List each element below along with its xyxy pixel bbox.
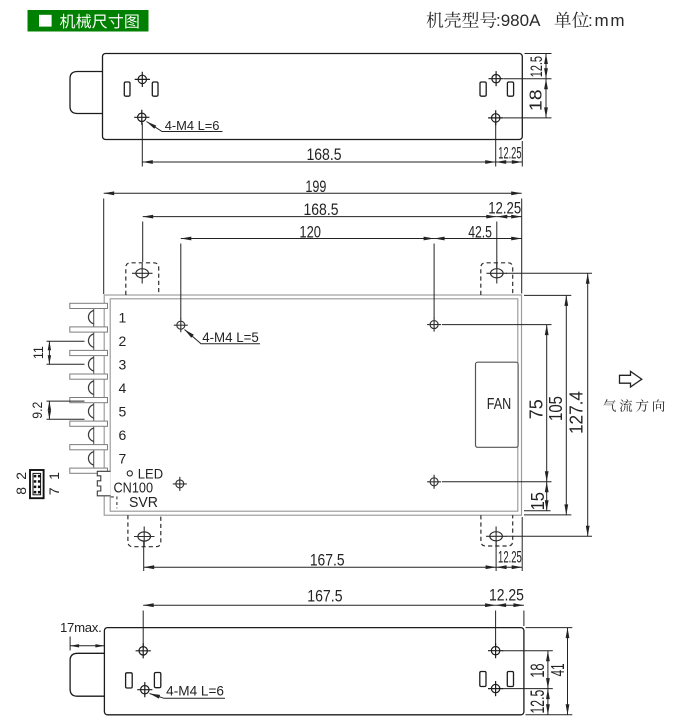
svg-text:12.25: 12.25 <box>488 200 521 218</box>
header green title box <box>28 10 149 32</box>
svg-text:LED: LED <box>138 466 163 482</box>
air flow arrow <box>620 371 642 387</box>
svg-text:168.5: 168.5 <box>306 146 341 164</box>
svg-text:12.5: 12.5 <box>528 56 546 77</box>
terminal pitch dim 11 <box>47 341 85 364</box>
svg-text:120: 120 <box>299 223 321 241</box>
ear hole bottom-left <box>138 532 151 541</box>
svg-text:7: 7 <box>119 451 127 467</box>
terminal block vertical line <box>93 303 95 473</box>
bottom view chassis body <box>104 628 524 715</box>
ear hole bottom-right <box>490 532 503 541</box>
svg-text:8: 8 <box>13 487 29 495</box>
mounting ear top-left (dashed) <box>126 263 159 295</box>
dim 42.5 <box>434 238 522 240</box>
svg-text:6: 6 <box>119 427 127 443</box>
top view mounting holes <box>138 75 146 83</box>
LED indicator <box>127 471 132 476</box>
svg-text:2: 2 <box>13 472 29 480</box>
header model text <box>427 12 497 28</box>
svg-text:15: 15 <box>528 492 548 510</box>
bottom view slots <box>126 673 133 688</box>
bottom view label 4-M4 L=6 <box>150 694 226 699</box>
svg-text:127.4: 127.4 <box>567 391 587 434</box>
svg-text:167.5: 167.5 <box>310 551 345 569</box>
bottom view dim 167.5 <box>143 605 495 648</box>
svg-text:105: 105 <box>546 396 566 421</box>
svg-text:167.5: 167.5 <box>307 588 342 606</box>
svg-text:12.25: 12.25 <box>498 144 521 162</box>
label 4-M4 L=5 <box>185 330 261 344</box>
dim 199 <box>104 193 522 294</box>
dim 75 <box>442 325 552 482</box>
terminal block bars <box>70 303 108 473</box>
svg-text:3: 3 <box>119 356 127 372</box>
svg-text:17max.: 17max. <box>60 620 101 635</box>
dim 15 <box>524 482 551 511</box>
svg-text:5: 5 <box>119 404 127 420</box>
dim 105 <box>524 295 571 515</box>
dim 127.4 <box>506 273 592 536</box>
SVR hidden outline (dashed) <box>111 497 117 509</box>
dim 167.5 (middle bottom) <box>144 541 496 571</box>
svg-text:11: 11 <box>31 346 46 359</box>
svg-text:SVR: SVR <box>129 495 158 511</box>
svg-text:42.5: 42.5 <box>468 223 492 241</box>
bottom view mounting holes <box>139 647 147 655</box>
svg-text:7: 7 <box>46 487 62 495</box>
middle view chassis outer edge <box>104 295 521 515</box>
svg-text:18: 18 <box>526 89 546 111</box>
terminal numbers 1-7 <box>119 309 127 466</box>
FAN cutout <box>476 362 519 447</box>
dim 168.5 (middle) <box>143 217 497 268</box>
svg-text:18: 18 <box>528 663 549 677</box>
svg-text:12.25: 12.25 <box>498 548 522 566</box>
mounting ear top-right (dashed) <box>481 263 513 295</box>
svg-text:4-M4 L=5: 4-M4 L=5 <box>202 330 259 346</box>
ear hole top-left <box>136 269 149 278</box>
CN100 connector protrusion <box>97 471 110 496</box>
middle view chassis inner edge <box>110 299 518 511</box>
svg-text:FAN: FAN <box>487 396 512 413</box>
bottom view dim 12.25 <box>496 605 524 626</box>
svg-text:4-M4 L=6: 4-M4 L=6 <box>166 683 224 698</box>
dim 120 <box>181 239 434 320</box>
dim 12.25 (middle bottom right) <box>496 517 522 571</box>
svg-text:1: 1 <box>119 309 127 325</box>
ear hole top-right <box>491 269 504 278</box>
top view dimensions right (12.5 / 18) <box>504 54 552 118</box>
mounting ear bottom-right (dashed) <box>481 515 513 546</box>
top view slots <box>124 82 130 96</box>
svg-text:41: 41 <box>548 663 568 676</box>
svg-text:4-M4 L=6: 4-M4 L=6 <box>165 118 220 133</box>
inner mounting holes (4-M4 L=5) <box>177 321 185 329</box>
bottom view left protrusion <box>70 653 104 696</box>
svg-text:1: 1 <box>46 472 62 480</box>
svg-text:12.5: 12.5 <box>528 690 549 714</box>
svg-text:9.2: 9.2 <box>30 402 45 419</box>
top view chassis body <box>103 54 523 140</box>
bottom view right dims <box>502 628 572 715</box>
top view label 4-M4 L=6 <box>147 122 223 132</box>
svg-text::980A: :980A <box>496 11 541 30</box>
mounting ear bottom-left (dashed) <box>128 515 161 547</box>
17max dim <box>70 637 104 651</box>
dim 12.25 (top right) <box>497 216 522 218</box>
svg-text:2: 2 <box>119 333 127 349</box>
svg-text:199: 199 <box>305 178 326 196</box>
svg-text::mm: :mm <box>588 11 625 30</box>
svg-text:4: 4 <box>119 380 127 396</box>
8-pin connector icon <box>30 470 44 498</box>
svg-text:12.25: 12.25 <box>489 587 524 605</box>
terminal opening dim 9.2 <box>47 401 85 419</box>
top view dimensions bottom (168.5 / 12.25) <box>142 123 522 167</box>
top view left protrusion (switch) <box>70 72 103 114</box>
terminal D-tabs <box>88 310 93 465</box>
svg-text:CN100: CN100 <box>114 480 154 496</box>
air flow text <box>603 399 664 412</box>
svg-text:75: 75 <box>526 399 546 419</box>
svg-text:168.5: 168.5 <box>304 201 339 219</box>
